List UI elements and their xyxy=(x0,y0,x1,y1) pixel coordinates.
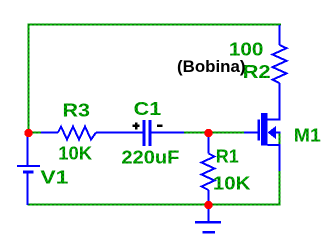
node A junction xyxy=(24,129,32,137)
wire M1 body to source xyxy=(279,133,281,146)
label C1 polarity minus xyxy=(157,124,163,126)
node B junction xyxy=(204,129,212,137)
svg-text:R2: R2 xyxy=(243,62,271,82)
wire top rail xyxy=(28,24,282,26)
label C1 polarity plus xyxy=(133,123,140,130)
capacitor C1 xyxy=(143,120,185,146)
svg-text:V1: V1 xyxy=(40,168,68,188)
svg-text:10K: 10K xyxy=(58,144,92,164)
wire node B to M1 gate xyxy=(209,132,244,134)
svg-text:M1: M1 xyxy=(294,126,321,146)
wire M1 source to bottom rail xyxy=(279,170,281,205)
node C junction xyxy=(204,201,212,209)
svg-text:R1: R1 xyxy=(216,147,239,167)
transistor M1 (n-mosfet) xyxy=(244,113,281,171)
wire bottom rail xyxy=(28,204,281,206)
svg-text:220uF: 220uF xyxy=(121,148,179,168)
svg-text:(Bobina): (Bobina) xyxy=(177,57,246,76)
battery V1 xyxy=(17,131,40,205)
wire left vertical (node A to top rail) xyxy=(28,24,30,132)
resistor R2 xyxy=(273,25,287,120)
ground xyxy=(195,205,221,232)
svg-text:R3: R3 xyxy=(63,101,91,121)
wire node A to R3 xyxy=(30,132,41,134)
svg-text:10K: 10K xyxy=(213,174,251,194)
resistor R1 xyxy=(202,131,215,205)
wire C1 to node B xyxy=(184,132,209,134)
resistor R3 xyxy=(41,127,143,140)
svg-text:C1: C1 xyxy=(134,99,162,119)
